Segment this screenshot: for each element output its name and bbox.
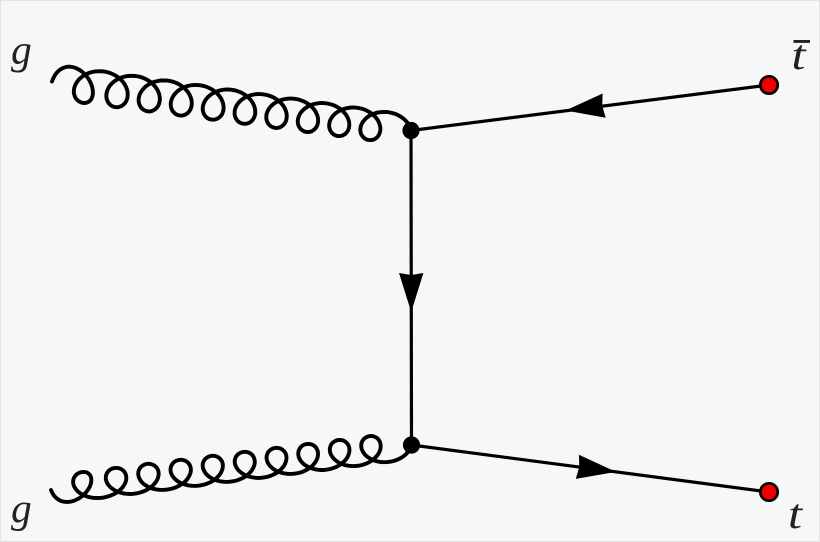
wire: top-quark propagator from vertex V1 down to vertex V2 (409, 131, 413, 446)
svg-text:g: g (11, 26, 32, 72)
arrow on propagator (pointing down) (399, 273, 423, 312)
svg-text:t: t (792, 33, 808, 79)
arrow on antitop line (pointing toward V1) (564, 93, 606, 122)
overline bar of t-bar (794, 40, 811, 43)
svg-text:t: t (788, 492, 804, 538)
wire: antitop fermion line from vertex V1 to top-right endpoint (411, 85, 769, 131)
gluon g2 (bottom incoming, coil) (51, 436, 412, 502)
wire: top fermion line from vertex V2 to bottom-right endpoint (412, 445, 770, 492)
vertex V2 (gluon-top coupling) (403, 436, 420, 453)
svg-text:g: g (11, 485, 32, 531)
vertex V1 (gluon-top coupling) (402, 122, 419, 139)
node: antitop external endpoint (red dot) (760, 76, 777, 93)
node: top external endpoint (red dot) (760, 483, 777, 500)
arrow on top line (pointing toward endpoint) (576, 455, 618, 484)
gluon g1 (top incoming, coil) (52, 67, 411, 140)
